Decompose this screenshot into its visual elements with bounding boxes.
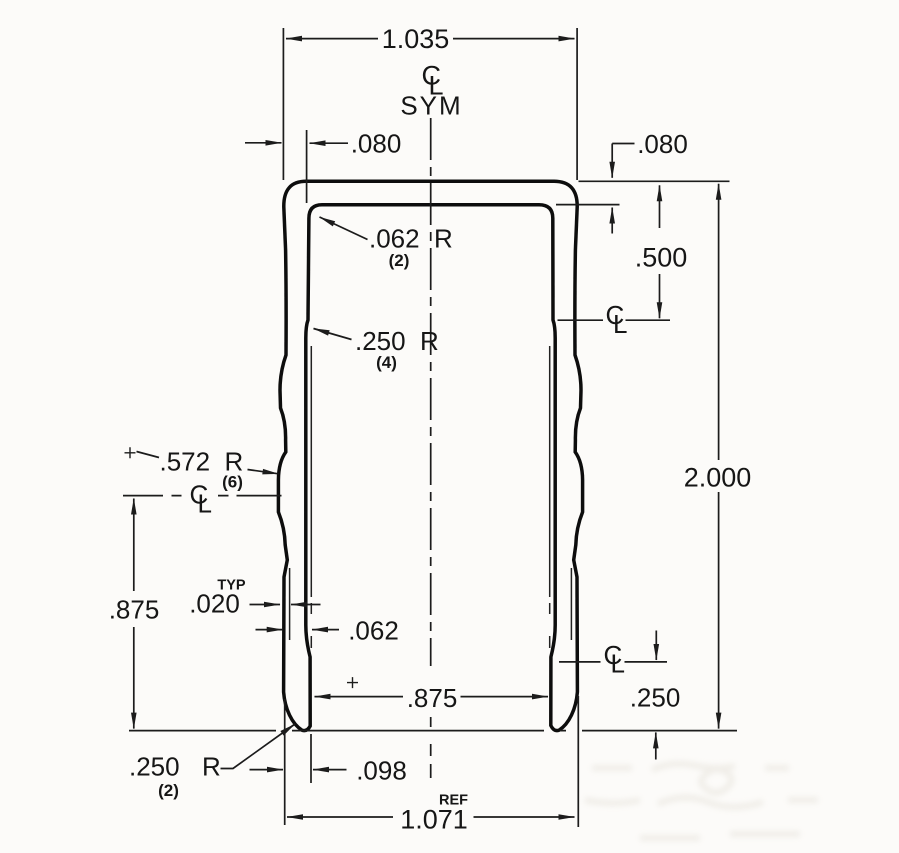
svg-text:.250 R: .250 R — [355, 326, 439, 356]
svg-text:L: L — [611, 649, 625, 679]
svg-text:.500: .500 — [635, 243, 688, 273]
svg-text:.062 R: .062 R — [369, 223, 453, 253]
svg-text:.080: .080 — [637, 129, 688, 159]
svg-text:R: R — [202, 751, 221, 781]
svg-text:.875: .875 — [109, 595, 160, 625]
svg-text:.098: .098 — [356, 756, 407, 786]
svg-text:(2): (2) — [158, 781, 179, 800]
svg-text:SYM: SYM — [400, 91, 462, 121]
svg-text:.250: .250 — [129, 751, 180, 781]
svg-text:2.000: 2.000 — [684, 463, 752, 493]
svg-text:(6): (6) — [222, 473, 243, 492]
svg-text:L: L — [198, 489, 212, 519]
svg-text:.020: .020 — [189, 589, 240, 619]
svg-text:L: L — [613, 309, 627, 339]
svg-text:.250: .250 — [630, 683, 681, 713]
svg-text:(4): (4) — [376, 353, 397, 372]
svg-text:.062: .062 — [348, 616, 399, 646]
svg-text:1.035: 1.035 — [382, 24, 450, 54]
svg-text:(2): (2) — [389, 251, 410, 270]
svg-text:.875: .875 — [407, 683, 458, 713]
svg-text:1.071: 1.071 — [400, 805, 468, 835]
svg-text:.080: .080 — [351, 128, 402, 158]
